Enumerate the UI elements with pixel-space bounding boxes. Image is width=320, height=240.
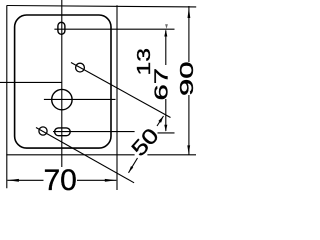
svg-text:70: 70 [44, 164, 77, 197]
svg-text:67: 67 [151, 68, 171, 101]
svg-text:90: 90 [177, 62, 197, 97]
svg-text:13: 13 [134, 48, 154, 76]
